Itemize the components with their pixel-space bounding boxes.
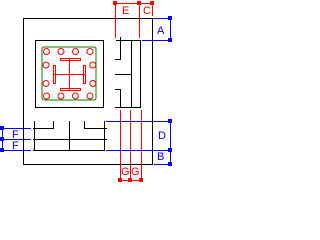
lead v3	[69, 121, 70, 151]
body line row128 left	[33, 128, 54, 129]
svg-text:F: F	[12, 140, 19, 152]
green pad outline	[42, 47, 96, 100]
seat line row150	[33, 150, 105, 151]
svg-text:A: A	[157, 25, 165, 37]
red dimension E/C top	[113, 1, 154, 38]
lead2 (middle)	[115, 74, 132, 75]
red centre cross	[53, 58, 86, 91]
blue dimension D/B (right)	[106, 119, 172, 166]
lead3 (bottom)	[115, 89, 121, 90]
body line row139	[33, 139, 107, 140]
svg-text:G: G	[131, 166, 140, 178]
blue dimension F/F (left)	[0, 126, 31, 152]
blue dimension A (top right)	[142, 16, 172, 42]
lead v4	[84, 121, 85, 129]
svg-text:D: D	[158, 130, 166, 142]
body line row128 right	[84, 128, 107, 129]
red pin circles	[43, 49, 96, 100]
svg-text:E: E	[122, 5, 129, 17]
lead1 (top)	[120, 37, 121, 60]
svg-text:G: G	[121, 166, 130, 178]
bottom front-view: lead verticals	[33, 121, 107, 151]
lead v5	[104, 121, 105, 151]
svg-text:B: B	[157, 151, 164, 163]
lead v2	[53, 121, 54, 129]
outer body rectangle (top view)	[23, 18, 153, 165]
red dimension G bottom	[118, 110, 143, 182]
inner body rectangle	[35, 40, 104, 108]
svg-text:C: C	[143, 5, 151, 17]
lead v1	[34, 121, 35, 151]
right side-view: body slab	[115, 37, 141, 108]
